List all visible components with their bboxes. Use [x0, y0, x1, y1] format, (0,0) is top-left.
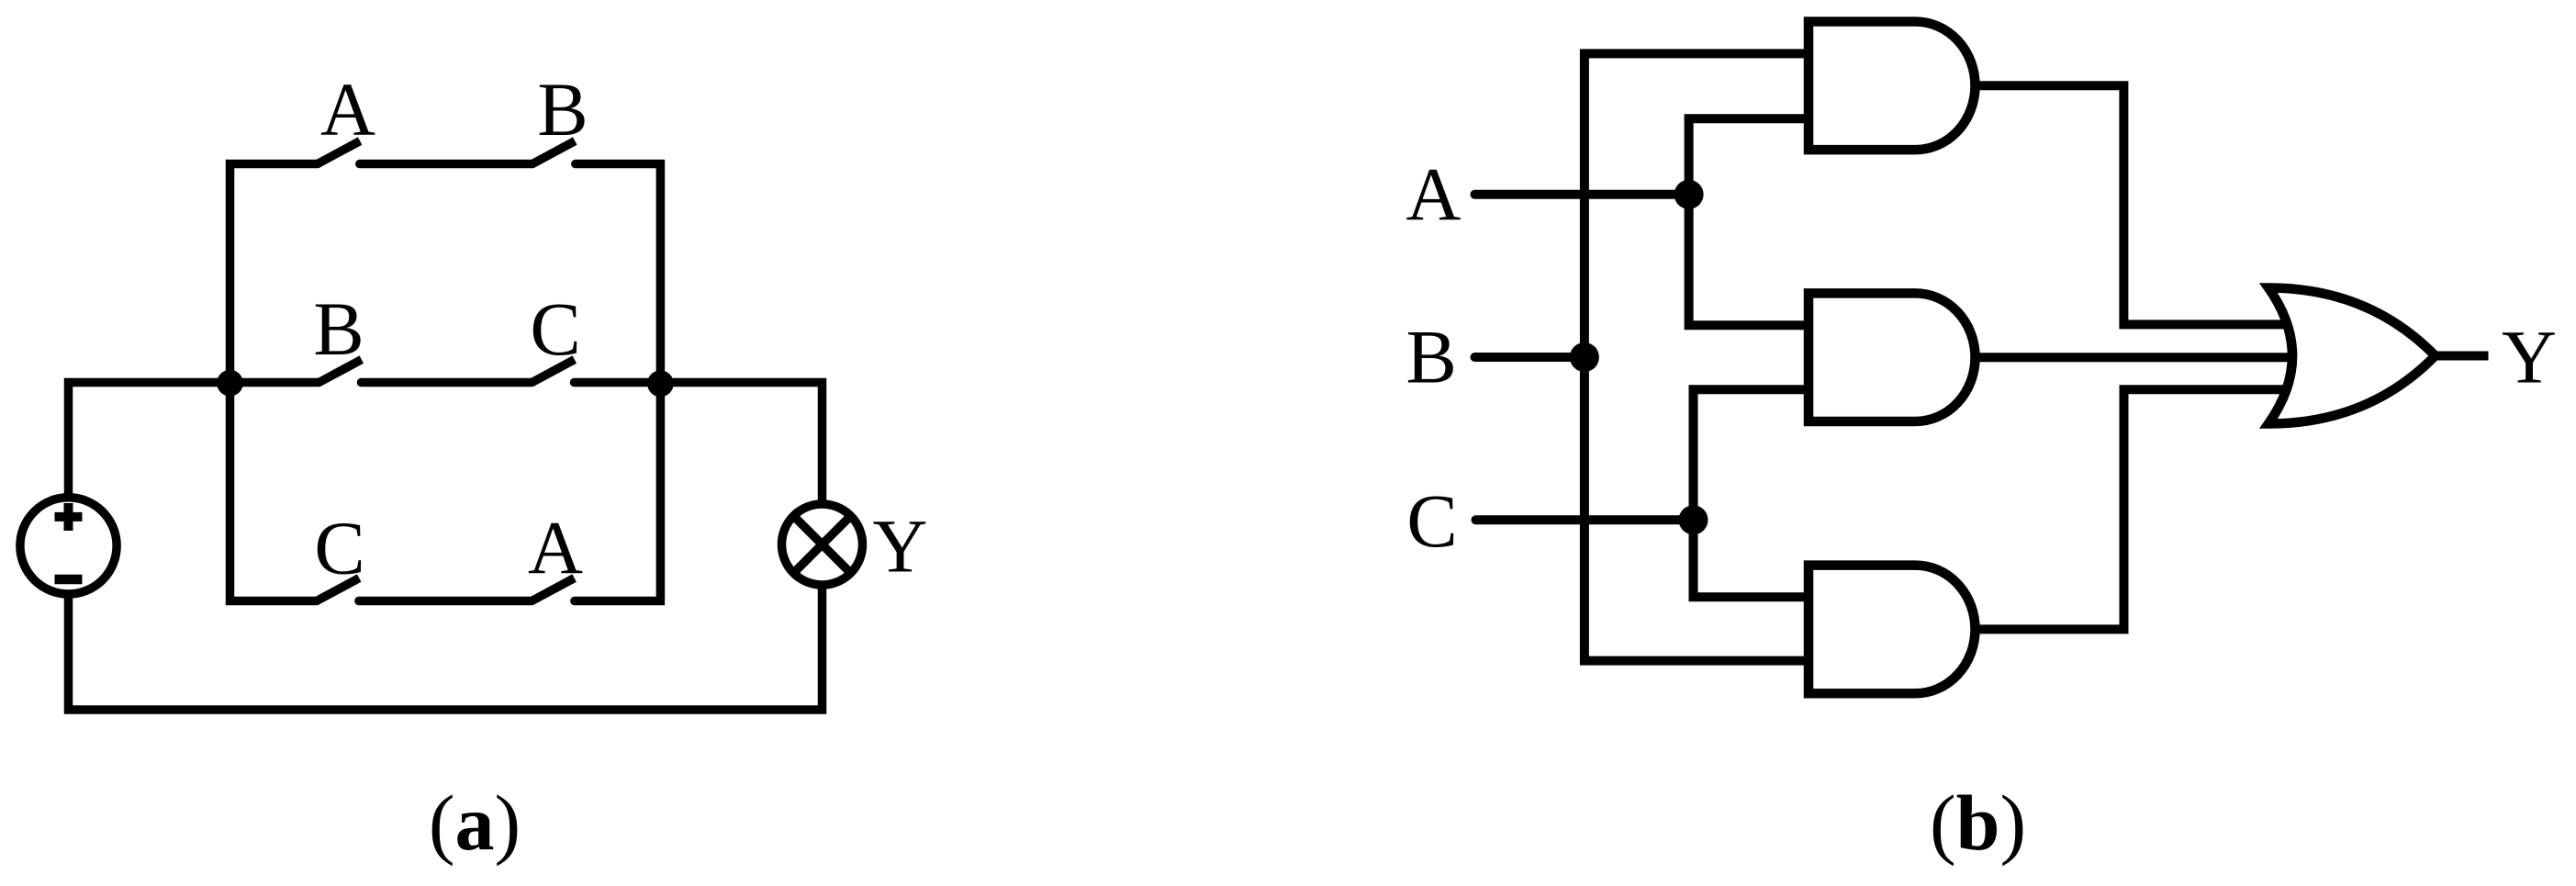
svg-text:B: B — [537, 67, 588, 151]
lamp X cross line 2 — [793, 516, 850, 573]
svg-text:A: A — [320, 67, 375, 151]
AND gate U2 (A·C) — [1809, 293, 1976, 421]
wire top row between switch A and switch B — [360, 160, 532, 169]
switch A (bottom row) blade — [532, 578, 574, 601]
wire A bus: up to AND1 bottom input and down to AND2 top input — [1689, 118, 1813, 325]
switch C (middle row) blade — [532, 360, 575, 383]
voltage source plus sign — [55, 512, 83, 522]
node C junction dot — [1679, 505, 1708, 534]
lamp Y circle — [782, 504, 863, 585]
wire AND2 output to OR middle input — [1972, 353, 2309, 362]
node left junction dot — [217, 370, 243, 397]
wire C bus: up to AND2 bottom input and down to AND3 top input — [1694, 389, 1814, 597]
switch B (top row) blade — [532, 141, 575, 164]
svg-text:(b): (b) — [1930, 779, 2026, 867]
lamp X cross line 1 — [793, 516, 850, 573]
wire left rail (top row left segment, left vertical, bottom row left segment) — [230, 164, 318, 601]
svg-text:B: B — [313, 286, 364, 371]
svg-text:Y: Y — [2502, 315, 2557, 399]
node A junction dot — [1674, 180, 1704, 209]
switch C (bottom row) blade — [317, 578, 359, 601]
wire right rail (top row right segment, right vertical, bottom row right segment) — [575, 164, 661, 601]
svg-text:C: C — [1406, 478, 1457, 563]
wire B bus: up to AND1 top input and down to AND3 bottom input — [1585, 53, 1813, 660]
wire input B — [1475, 353, 1589, 362]
wire input C — [1476, 515, 1698, 524]
OR gate U4 — [2268, 288, 2436, 424]
wire outer loop: middle rail left + battery branch + bottom rail + lamp branch + middle rail right — [69, 383, 823, 711]
wire OR output Y — [2434, 352, 2489, 361]
svg-text:C: C — [530, 286, 580, 371]
wire bottom row between switch C and switch A — [359, 597, 532, 606]
wire AND3 output to OR bottom input — [1972, 389, 2302, 629]
switch A (top row) blade — [318, 141, 360, 164]
switch B (middle row) blade — [319, 360, 362, 383]
voltage source V1 circle — [20, 498, 117, 594]
AND gate U1 (A·B) — [1809, 22, 1975, 151]
svg-text:(a): (a) — [429, 779, 521, 867]
voltage source minus sign — [55, 575, 83, 585]
svg-text:B: B — [1406, 315, 1457, 399]
wire AND1 output to OR top input — [1972, 85, 2302, 324]
wire input A — [1475, 190, 1695, 199]
node right junction dot — [647, 370, 674, 397]
AND gate U3 (B·C) — [1809, 566, 1976, 694]
wire middle row from switch C to right junction — [575, 378, 661, 387]
node B junction dot — [1570, 342, 1599, 372]
wire middle row from left junction to switch B — [230, 378, 319, 387]
svg-text:A: A — [528, 506, 583, 590]
svg-text:Y: Y — [873, 504, 928, 589]
svg-text:A: A — [1406, 152, 1462, 237]
wire middle row between switch B and switch C — [362, 378, 532, 387]
svg-text:C: C — [314, 506, 364, 590]
